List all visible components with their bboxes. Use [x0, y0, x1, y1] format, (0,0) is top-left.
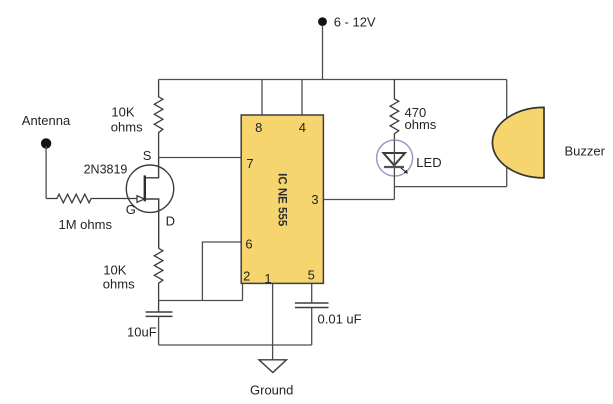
svg-text:Ground: Ground [250, 382, 293, 397]
svg-text:Antenna: Antenna [22, 113, 71, 128]
svg-text:IC NE 555: IC NE 555 [275, 173, 287, 227]
ground symbol [259, 360, 287, 373]
label IC NE 555 [275, 173, 287, 227]
label 6 - 12V [334, 15, 376, 30]
wire led branch to buzzer bottom [394, 186, 506, 188]
node VCC 6-12V supply dot [318, 17, 327, 26]
svg-text:6 - 12V: 6 - 12V [334, 15, 376, 30]
svg-text:2N3819: 2N3819 [84, 163, 128, 177]
label 10K ohms upper [111, 105, 143, 135]
svg-text:LED: LED [416, 155, 441, 170]
transistor Q1 channel bar [144, 175, 146, 201]
label 470 ohms [405, 105, 437, 132]
pin 7 [246, 156, 253, 171]
label 10uF [127, 325, 157, 340]
wire pin1 to ground [272, 284, 274, 360]
capacitor C1 10uF plates [146, 312, 173, 316]
svg-text:2: 2 [243, 269, 250, 284]
svg-text:ohms: ohms [103, 277, 135, 292]
svg-text:10uF: 10uF [127, 325, 157, 340]
LED D1 circle [377, 140, 413, 176]
label 2N3819 [84, 163, 128, 177]
label LED [416, 155, 441, 170]
resistor R2 1M ohms [46, 194, 136, 203]
resistor R1 10K upper [154, 80, 163, 158]
label Antenna [22, 113, 71, 128]
wire tie line pins 2 and 6 [159, 300, 243, 302]
svg-text:5: 5 [308, 268, 315, 283]
LED D1 anode triangle [383, 153, 405, 165]
transistor Q1 drain lead [146, 199, 159, 248]
node antenna dot [41, 138, 51, 148]
capacitor C2 0.01uF plates [295, 303, 329, 308]
LED D1 emission arrow [401, 168, 408, 174]
label 10K ohms lower [103, 262, 135, 291]
wire pin6 link [202, 242, 240, 301]
label S [143, 148, 152, 163]
wire bottom rail [159, 344, 312, 346]
wire buzzer right drop [506, 80, 508, 187]
wire pin4 drop [301, 80, 303, 116]
LED D1 cathode bar [384, 166, 404, 168]
svg-text:ohms: ohms [405, 117, 437, 132]
wire below C1 [158, 316, 160, 345]
pin 5 [308, 268, 315, 283]
pin 2 [243, 269, 250, 284]
wire pin2 stub [242, 284, 244, 301]
label 0.01 uF [318, 312, 362, 327]
resistor R3 10K lower [154, 248, 163, 311]
label G [126, 202, 136, 217]
svg-text:6: 6 [245, 236, 252, 251]
svg-text:10K: 10K [111, 105, 134, 120]
wire supply drop to bus [322, 25, 324, 80]
IC U1 NE555 body [241, 115, 323, 283]
wire antenna lead [45, 146, 47, 199]
label D [166, 214, 175, 229]
label Ground [250, 382, 293, 397]
wire pin8 drop [261, 80, 263, 116]
svg-text:Buzzer: Buzzer [565, 143, 606, 158]
label 1M ohms [59, 217, 113, 232]
svg-text:3: 3 [311, 192, 318, 207]
pin 3 [311, 192, 318, 207]
svg-text:10K: 10K [103, 262, 126, 277]
wire pin3 out [323, 199, 394, 201]
pin 1 [264, 271, 271, 286]
svg-text:7: 7 [246, 156, 253, 171]
pin 6 [245, 236, 252, 251]
transistor Q1 gate arrow [137, 196, 144, 203]
svg-text:D: D [166, 214, 175, 229]
svg-text:ohms: ohms [111, 120, 143, 135]
resistor R4 470 ohms [390, 80, 399, 141]
wire pin7 from source junction [159, 157, 241, 159]
label Buzzer [565, 143, 606, 158]
wire pin5 drop [311, 284, 313, 303]
wire top bus [159, 79, 507, 81]
svg-text:4: 4 [299, 120, 306, 135]
svg-text:1M ohms: 1M ohms [59, 217, 113, 232]
wire below C2 [311, 308, 313, 346]
buzzer BZ1 body [492, 107, 544, 177]
pin 4 [299, 120, 306, 135]
svg-text:G: G [126, 202, 136, 217]
svg-text:8: 8 [255, 120, 262, 135]
svg-text:1: 1 [264, 271, 271, 286]
svg-text:0.01 uF: 0.01 uF [318, 312, 362, 327]
LED D1 through wire [393, 140, 395, 200]
pin 8 [255, 120, 262, 135]
transistor Q1 2N3819 circle [126, 165, 173, 212]
transistor Q1 source lead [146, 158, 159, 178]
svg-text:S: S [143, 148, 152, 163]
